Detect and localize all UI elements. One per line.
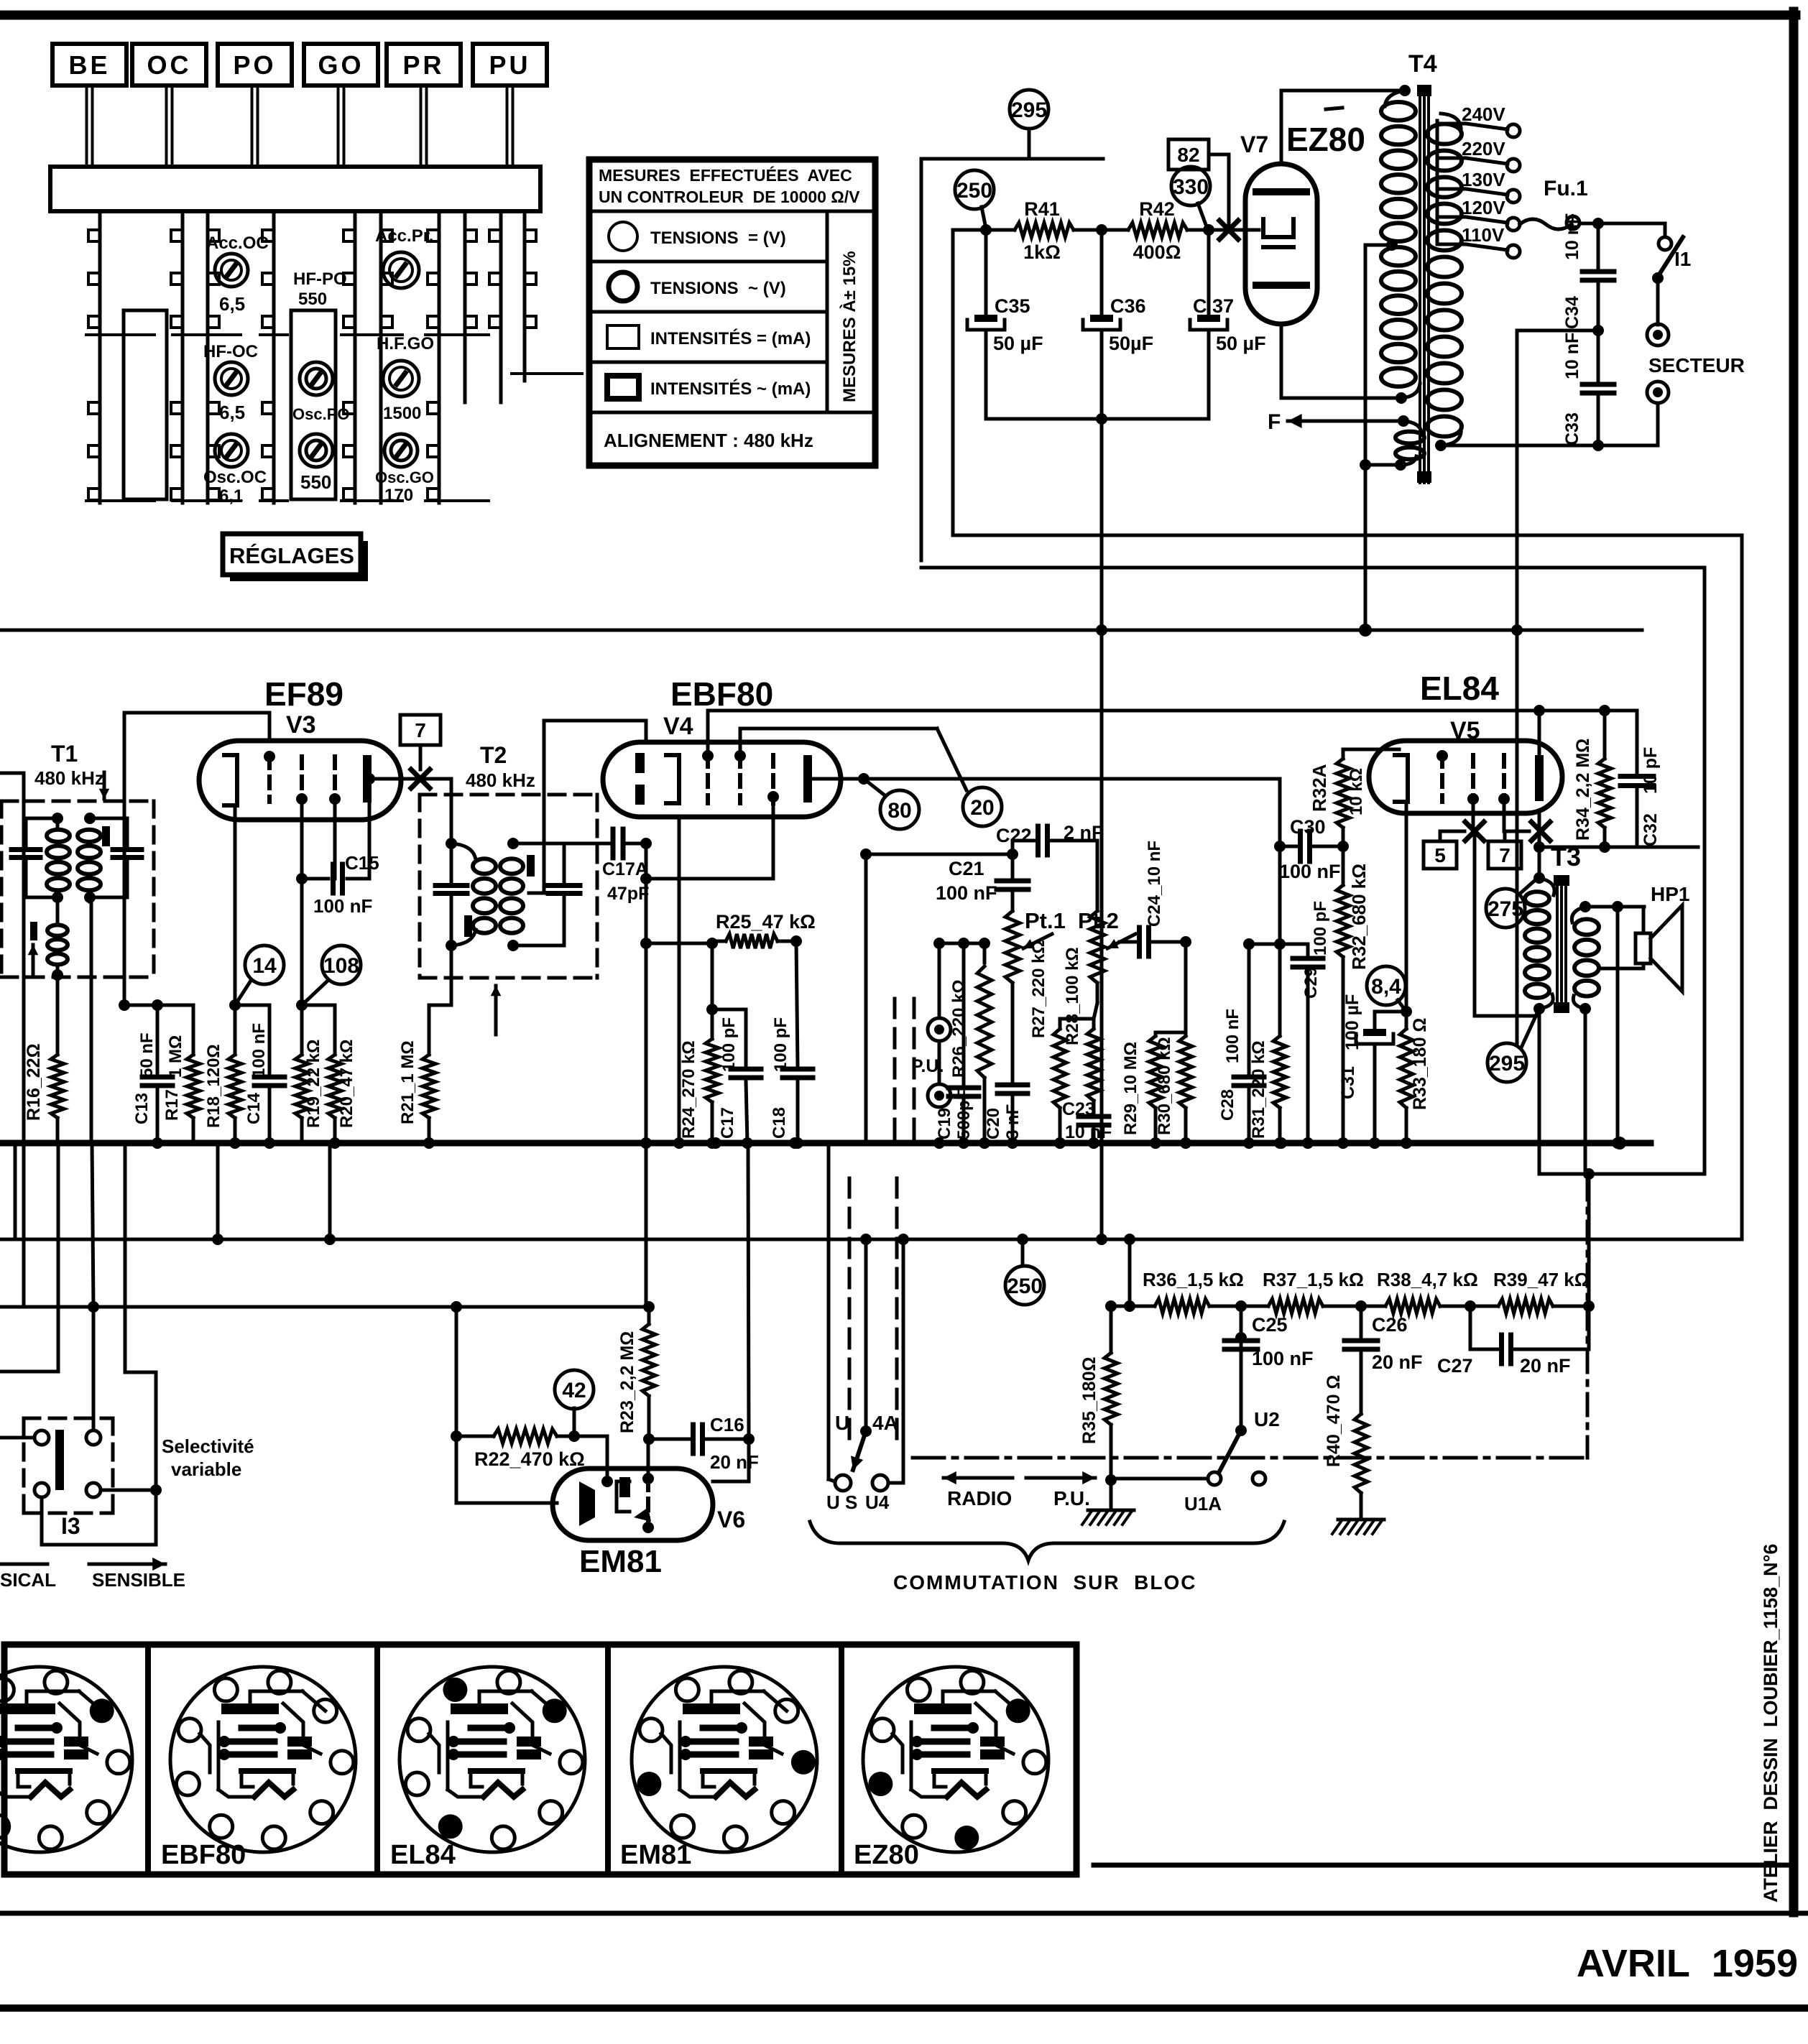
switch column BE rail (86, 211, 154, 503)
legend row intensites AC (607, 376, 811, 399)
trimmer HF-PO (293, 269, 347, 395)
T1 right capacitor (90, 818, 142, 897)
svg-text:500pF: 500pF (954, 1090, 974, 1139)
svg-text:550: 550 (300, 471, 331, 493)
bottom thick line (0, 2004, 1808, 2012)
svg-text:ATELIER DESSIN LOUBIER_1158_: ATELIER DESSIN LOUBIER_1158_N°6 (1760, 1544, 1781, 1902)
wire R41 row left (953, 224, 1015, 236)
stem wire PU (507, 85, 513, 167)
x mark V5 anode (1531, 822, 1550, 841)
capacitor C36 50µF (1083, 230, 1153, 419)
rail 250V (0, 1234, 1742, 1245)
node 295 circle (1010, 90, 1048, 159)
switch column PR rails (425, 211, 489, 503)
svg-text:C16: C16 (710, 1414, 744, 1435)
capacitor C24 10nF (1120, 711, 1191, 956)
label V7 (1240, 131, 1268, 157)
box 7 V5 (1488, 831, 1521, 869)
tap 220V (1437, 138, 1520, 172)
capacitor C17A 47pF (602, 829, 652, 904)
svg-text:INTENSITÉS = (mA): INTENSITÉS = (mA) (650, 328, 811, 348)
label I3 (61, 1513, 80, 1539)
wire screen to T3 bottom (1475, 831, 1539, 1016)
resistor R39 47kΩ (1493, 1269, 1590, 1313)
node circle 108 (302, 945, 361, 1005)
resistor R31 220kΩ (1249, 1036, 1286, 1149)
node circle 250 low (1005, 1239, 1044, 1305)
svg-text:Acc.OC: Acc.OC (206, 233, 269, 253)
wire R26 top (939, 938, 990, 949)
stem wire PR (421, 85, 427, 167)
x mark V7 anode (1219, 221, 1238, 239)
verticals left (22, 977, 26, 1307)
tap feed wire (1436, 121, 1439, 244)
label V3 (286, 711, 316, 739)
capacitor C26 20nF (1345, 1306, 1423, 1410)
resistor R32A 10kΩ (1309, 749, 1399, 846)
potentiometer Pt.1 (1005, 908, 1066, 983)
svg-text:R30_680 kΩ: R30_680 kΩ (1155, 1037, 1174, 1135)
wire detection row (646, 938, 718, 949)
trimmer Acc.OC (206, 233, 269, 315)
wire AGC to V3 grid (124, 713, 269, 1005)
I3 dashed box (24, 1418, 113, 1513)
band switch label box PU (473, 44, 547, 85)
svg-text:480 kHz: 480 kHz (34, 767, 104, 789)
wire anode row right (1533, 831, 1698, 853)
wire B+ box top (921, 157, 1103, 161)
wire V3 anode to T2 (420, 779, 457, 849)
wire V5 cathode down (1405, 802, 1408, 1012)
T2 dashed box (420, 795, 597, 978)
wire T3 bottom down (1538, 1016, 1541, 1174)
label T1 (34, 741, 109, 799)
svg-text:EL84: EL84 (1420, 670, 1499, 707)
wire V3 cathode down (234, 805, 237, 1005)
capacitor C21 100nF (936, 854, 1028, 911)
trimmer Osc.OC (203, 434, 267, 506)
svg-text:Acc.Pr.: Acc.Pr. (375, 226, 433, 246)
wire PU column (933, 938, 945, 1018)
svg-text:U4: U4 (865, 1492, 890, 1513)
svg-text:T4: T4 (1408, 50, 1437, 78)
legend row intensites DC (607, 325, 811, 348)
box 82 (1168, 139, 1229, 228)
svg-text:OC: OC (147, 50, 192, 80)
label EF89 (264, 675, 343, 713)
resistor R19 22kΩ (295, 1005, 323, 1143)
label SECTEUR (1648, 354, 1745, 376)
wire C13 R17 top (119, 999, 193, 1011)
stem wire BE (87, 85, 93, 167)
svg-text:EM81: EM81 (579, 1544, 662, 1579)
svg-text:C30: C30 (1290, 816, 1326, 838)
wire V5 grid3 down (1504, 802, 1529, 831)
socket EZ80 (854, 1667, 1048, 1870)
svg-text:275: 275 (1488, 897, 1523, 921)
svg-text:Pt.1: Pt.1 (1025, 908, 1066, 933)
wire V3 g2 down (300, 802, 304, 1005)
svg-text:EM81: EM81 (620, 1840, 691, 1870)
svg-text:1kΩ: 1kΩ (1023, 241, 1061, 263)
wire V3 g3 down (333, 802, 337, 879)
wire V6 grid pin up (647, 1439, 650, 1477)
legend mesures a 15% (839, 251, 859, 402)
svg-text:R24_270 kΩ: R24_270 kΩ (679, 1040, 698, 1139)
svg-text:20 nF: 20 nF (710, 1451, 759, 1473)
svg-text:100 pF: 100 pF (1311, 901, 1330, 956)
arrow radio (944, 1471, 1013, 1509)
svg-text:550: 550 (298, 290, 327, 309)
svg-text:R42: R42 (1139, 198, 1175, 220)
svg-text:1 MΩ: 1 MΩ (166, 1035, 185, 1078)
node 250 circle top (955, 170, 994, 228)
pentode V5 EL84 tube (1369, 741, 1562, 813)
svg-text:100 nF: 100 nF (1279, 861, 1341, 882)
I3 feed wires (0, 1143, 156, 1490)
svg-text:80: 80 (887, 799, 911, 823)
svg-text:100 nF: 100 nF (249, 1023, 269, 1078)
svg-text:6,5: 6,5 (219, 293, 245, 315)
wire R36 R37 (1209, 1300, 1268, 1312)
resistor R27 220kΩ (1029, 940, 1094, 1149)
wire bus to I3 left (14, 1303, 16, 1305)
socket EM81 (620, 1667, 817, 1870)
resistor R36 1,5kΩ (1143, 1269, 1244, 1313)
svg-text:100 pF: 100 pF (771, 1017, 790, 1072)
svg-text:C29: C29 (1301, 967, 1321, 999)
legend box frame (589, 159, 875, 466)
wire T1 sec down (91, 897, 93, 1307)
wire rail to R22 (451, 1307, 462, 1442)
resistor R28 100kΩ (1063, 947, 1100, 1101)
border frame right (1789, 11, 1799, 1913)
filter ground rail (986, 413, 1209, 425)
T2 primary cap (435, 843, 467, 945)
resistor R35 180Ω (1079, 1306, 1117, 1509)
wire R42 to V7 (1187, 224, 1259, 236)
wire V5 g1 stub (1442, 711, 1443, 747)
svg-text:R32A: R32A (1309, 764, 1330, 812)
svg-text:SICAL: SICAL (0, 1569, 56, 1591)
switch bar (50, 167, 540, 211)
svg-text:110V: 110V (1462, 224, 1505, 246)
label EZ80 (1286, 121, 1365, 158)
bus jog (1541, 1142, 1542, 1144)
resistor R23 2,2MΩ (617, 1307, 655, 1445)
svg-text:EL84: EL84 (390, 1840, 456, 1870)
svg-text:R20_47 kΩ: R20_47 kΩ (337, 1040, 356, 1128)
resistor R32 680kΩ (1337, 846, 1370, 1149)
wire T1 tert to R16 (56, 977, 60, 1055)
switch column OC rails (171, 211, 241, 503)
wire T3 295 to jog (1539, 1168, 1705, 1180)
pentode-diode V4 EBF80 tube (603, 742, 841, 817)
shield dashed lines (849, 999, 914, 1444)
T1 slug (102, 826, 110, 846)
label EBF80 (670, 675, 773, 713)
svg-text:R29_10 MΩ: R29_10 MΩ (1121, 1042, 1140, 1135)
resistor R38 4,7kΩ (1377, 1269, 1478, 1313)
wire V7 plate top (1281, 91, 1405, 164)
commutation dash line (913, 1178, 1587, 1458)
svg-text:47pF: 47pF (607, 884, 649, 904)
svg-text:EBF80: EBF80 (670, 675, 773, 713)
stem wire GO (338, 85, 344, 167)
sockets strip frame (4, 1645, 1076, 1874)
legend row tensions DC (609, 222, 786, 251)
T1 tertiary slug (28, 922, 39, 977)
svg-text:I1: I1 (1674, 248, 1691, 270)
socket EL84 (390, 1667, 585, 1870)
bus junction dots (152, 1137, 1412, 1149)
switch I1 (1652, 223, 1691, 325)
x mark V5 g2 (1465, 822, 1484, 841)
svg-text:PR: PR (402, 50, 444, 80)
wire V4 anode to C30 (1278, 779, 1282, 846)
T2 slug top (527, 855, 535, 877)
wire R22 to V6 (456, 1436, 557, 1503)
svg-text:C23: C23 (1062, 1099, 1095, 1119)
stem wire OC (167, 85, 172, 167)
svg-text:R21_1 MΩ: R21_1 MΩ (398, 1040, 418, 1124)
svg-text:P.U.: P.U. (911, 1056, 944, 1076)
svg-text:170: 170 (384, 486, 413, 505)
ground R35 (1082, 1474, 1134, 1525)
box 7 V3 (400, 715, 441, 769)
svg-text:20: 20 (970, 796, 994, 820)
svg-text:100 pF: 100 pF (719, 1017, 739, 1072)
date AVRIL 1959 (1577, 1942, 1798, 1985)
svg-text:R40_470 Ω: R40_470 Ω (1324, 1375, 1344, 1467)
svg-text:100 nF: 100 nF (1252, 1348, 1314, 1369)
tap 130V (1437, 169, 1520, 203)
label EM81 tube (579, 1544, 662, 1579)
wire R35 column (1124, 1239, 1135, 1312)
label commutation sur bloc (893, 1571, 1196, 1594)
resistor R24 270kΩ (679, 943, 719, 1149)
svg-text:R34_2,2 MΩ: R34_2,2 MΩ (1573, 739, 1593, 841)
svg-text:MESURES EFFECTUÉES AVEC: MESURES EFFECTUÉES AVEC (599, 165, 852, 185)
svg-text:C17: C17 (718, 1107, 737, 1139)
speaker HP1 (1636, 883, 1689, 991)
svg-text:COMMUTATION SUR BLOC: COMMUTATION SUR BLOC (893, 1571, 1196, 1594)
jack PU bottom (911, 1056, 951, 1107)
wire x1326 down (951, 230, 955, 532)
label sensible (89, 1558, 185, 1591)
resistor R17 1MΩ (162, 1005, 200, 1143)
svg-text:C28: C28 (1218, 1089, 1237, 1121)
wire V4 diode plate (645, 721, 648, 843)
label V4 (663, 713, 693, 740)
capacitor C20 3nF (984, 983, 1028, 1143)
wire C16 riser (713, 1143, 749, 1481)
capacitor C31 100µF (1338, 994, 1412, 1149)
line right of sockets (1094, 1863, 1794, 1868)
wire T1 left down (22, 801, 26, 977)
capacitor C27 20nF (1437, 1306, 1589, 1377)
wire x303 bus to rail (216, 1143, 220, 1239)
svg-text:PO: PO (233, 50, 276, 80)
T2 primary coil (446, 843, 496, 951)
arrow pu (1026, 1471, 1095, 1509)
wire T3 primary top (1533, 847, 1545, 884)
resistor R16 22Ω (24, 1043, 64, 1143)
svg-text:Osc.OC: Osc.OC (203, 468, 267, 487)
svg-text:T2: T2 (480, 742, 507, 768)
wire B+ run A (953, 535, 1742, 1239)
T2 secondary cap (513, 843, 580, 945)
svg-text:100 nF: 100 nF (936, 882, 997, 904)
svg-text:EZ80: EZ80 (854, 1840, 919, 1870)
brace commutation (810, 1522, 1284, 1560)
svg-text:4A: 4A (872, 1412, 898, 1434)
capacitor C30 100nF (1279, 816, 1349, 882)
svg-text:HF-PO: HF-PO (293, 269, 347, 289)
svg-text:50 µF: 50 µF (1216, 333, 1266, 354)
chain start (1105, 1300, 1155, 1312)
svg-text:R27_220 kΩ: R27_220 kΩ (1029, 940, 1048, 1038)
wire T2 bottom AVC (451, 945, 452, 1143)
wire U4A column up (860, 848, 1013, 1143)
label T3 (1551, 842, 1581, 871)
wire V4 anode row (812, 773, 1280, 785)
box 5 (1424, 831, 1465, 869)
svg-text:C25: C25 (1252, 1314, 1288, 1336)
bottom separator line (0, 1911, 1808, 1916)
svg-text:C 37: C 37 (1193, 295, 1234, 317)
svg-text:R26_220 kΩ: R26_220 kΩ (949, 979, 969, 1078)
svg-text:R17: R17 (162, 1089, 182, 1121)
transformer T4 HV center tap (1359, 239, 1406, 637)
wire x459 bus to rail (328, 1143, 332, 1239)
svg-text:V6: V6 (717, 1507, 745, 1532)
svg-text:TENSIONS ~ (V): TENSIONS ~ (V) (650, 279, 786, 298)
label T4 (1408, 50, 1437, 78)
svg-text:82: 82 (1177, 144, 1199, 166)
resistor R30 680kΩ (1155, 1032, 1192, 1149)
wire jog R39 (1587, 1174, 1591, 1306)
svg-text:BE: BE (68, 50, 110, 80)
capacitor C33 10nF (1562, 330, 1614, 451)
svg-text:1500: 1500 (383, 404, 421, 423)
wire B+ 250 down (1096, 419, 1107, 1239)
svg-text:C19: C19 (935, 1108, 954, 1139)
svg-text:V7: V7 (1240, 131, 1268, 157)
T2 slug bottom (464, 915, 501, 1035)
svg-text:20 nF: 20 nF (1520, 1355, 1571, 1377)
svg-text:10 nF: 10 nF (1562, 213, 1582, 260)
wire V4 g1 down (640, 797, 773, 884)
wire detection column (640, 843, 652, 1307)
svg-text:5: 5 (1434, 844, 1446, 866)
svg-text:R31_220 kΩ: R31_220 kΩ (1249, 1040, 1268, 1139)
svg-text:R18_120Ω: R18_120Ω (204, 1044, 223, 1128)
svg-text:T1: T1 (51, 741, 78, 767)
switch U2 U1A (1111, 1408, 1280, 1514)
resistor R21 1MΩ (398, 978, 451, 1143)
band switch label box GO (304, 44, 378, 85)
capacitor C29 100pF (1281, 901, 1330, 1149)
svg-text:U1A: U1A (1184, 1493, 1222, 1514)
band switch label box PO (218, 44, 292, 85)
wire HP1 return (1612, 907, 1623, 1149)
node 330 circle (1171, 167, 1210, 228)
wire V4 g2 up (708, 711, 1637, 750)
svg-text:100 nF: 100 nF (1223, 1009, 1242, 1063)
label musical (0, 1564, 56, 1591)
node circle 20 (937, 729, 1002, 826)
switch column PU rails (489, 211, 582, 402)
svg-text:108: 108 (323, 954, 359, 978)
transformer T3 secondary (1572, 901, 1599, 1014)
capacitor C23 10nF (1062, 1099, 1112, 1149)
capacitor C16 20nF (649, 1414, 759, 1473)
svg-text:R37_1,5 kΩ: R37_1,5 kΩ (1263, 1269, 1364, 1290)
tap 240V (1437, 103, 1520, 137)
jack PU top (928, 1018, 951, 1084)
resistor R40 470Ω (1324, 1375, 1367, 1516)
svg-text:50 µF: 50 µF (993, 333, 1043, 354)
wire x21 down (14, 1143, 17, 1239)
wire Pt1 bottom (1011, 983, 1015, 1073)
resistor R29 10MΩ (1121, 1032, 1186, 1149)
node circle 295 output (1488, 1012, 1538, 1082)
transformer T4 filament winding (1396, 415, 1424, 465)
reglages label box (223, 534, 368, 581)
x mark V3 anode (411, 769, 430, 788)
svg-text:7: 7 (415, 719, 426, 741)
svg-text:7: 7 (1499, 844, 1510, 866)
T2 middle tap (529, 721, 646, 893)
wire C34 junction left (1517, 329, 1598, 333)
T1 secondary coil (78, 813, 101, 903)
svg-text:6,1: 6,1 (219, 486, 243, 506)
svg-text:C14: C14 (244, 1092, 264, 1124)
svg-text:100 µF: 100 µF (1342, 994, 1362, 1050)
svg-text:R28_100 kΩ: R28_100 kΩ (1063, 947, 1082, 1045)
wire U4 column (865, 1239, 903, 1513)
label selectivite variable (162, 1435, 254, 1480)
wire T3 sec top row (1585, 901, 1644, 912)
T1 tertiary coil (47, 902, 68, 981)
switch column PO frame (291, 310, 336, 499)
switch column GO rails (341, 211, 402, 503)
wire V5 grid2 down (1472, 802, 1475, 831)
rectifier tube V7 EZ80 (1245, 164, 1317, 324)
svg-text:R33_180 Ω: R33_180 Ω (1410, 1018, 1430, 1110)
potentiometer Pt.2 (1078, 841, 1135, 1032)
switch U 4A (826, 1412, 898, 1513)
capacitor C32 10pF (1620, 711, 1661, 847)
capacitor C15 100nF (296, 773, 379, 917)
transformer T3 core (1554, 875, 1569, 1013)
svg-text:T3: T3 (1551, 842, 1581, 871)
legend title (599, 165, 860, 206)
pentode V3 EF89 tube (199, 741, 401, 820)
label V5 (1450, 717, 1480, 744)
resistor R34 2,2MΩ (1573, 705, 1611, 853)
svg-text:C34: C34 (1562, 296, 1582, 329)
resistor R25 47kΩ (712, 911, 816, 948)
capacitor C17 100pF (712, 1009, 761, 1149)
svg-text:42: 42 (562, 1379, 586, 1402)
svg-text:H.F.GO: H.F.GO (377, 334, 434, 353)
capacitor C25 100nF (1224, 1306, 1314, 1410)
wire R41-R42 (1074, 224, 1128, 236)
node circle 8,4 (1367, 966, 1406, 1012)
svg-text:250: 250 (956, 179, 992, 203)
